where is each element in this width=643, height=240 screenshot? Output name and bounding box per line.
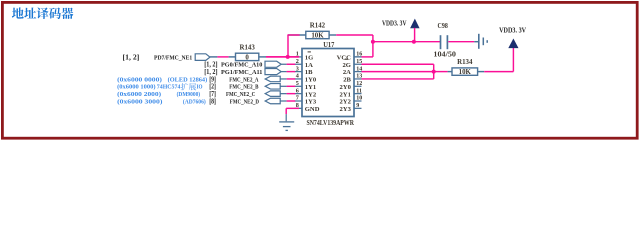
wire R143 to U17 pin 1 [266, 56, 299, 58]
port PG0/FMC_A10 [265, 61, 281, 67]
svg-text:VCC: VCC [337, 55, 352, 62]
wire R143 left stub [229, 56, 236, 58]
port FMC_NE2_D [265, 98, 280, 104]
svg-text:(AD7606): (AD7606) [183, 98, 206, 105]
wire FMC_NE2_C to U17 [280, 93, 286, 95]
wire R143 right stub [259, 56, 266, 58]
port FMC_NE2_A [265, 76, 280, 82]
svg-text:10K: 10K [459, 69, 472, 76]
wire GND pin 8 [286, 107, 299, 109]
svg-text:PD7/FMC_NE1: PD7/FMC_NE1 [154, 54, 192, 61]
svg-text:(0x6000 2000): (0x6000 2000) [117, 91, 161, 98]
svg-text:(OLED 12864): (OLED 12864) [168, 76, 208, 83]
svg-text:1G: 1G [305, 55, 313, 62]
power VDD3.3V (right) symbol [509, 39, 518, 48]
title 地址译码器 [12, 7, 74, 19]
svg-text:VDD3. 3V: VDD3. 3V [499, 27, 526, 35]
ground (right of C98) [478, 34, 480, 49]
wire R134 right stub [478, 71, 485, 73]
wire 2B pin 13 [362, 78, 434, 80]
svg-text:2B: 2B [343, 77, 351, 84]
junction 2G/2A/2B net [432, 70, 436, 74]
U17 right pin stubs [354, 57, 362, 108]
wire 2G pin 15 [362, 63, 434, 65]
capacitor C98 [440, 35, 442, 49]
svg-text:1Y3: 1Y3 [305, 99, 317, 106]
IC U17 SN74LV139APWR body [302, 49, 354, 117]
wire to R134 [434, 71, 448, 73]
wire PG1/FMC_A11 to U17 [281, 71, 286, 73]
resistor R134 [452, 59, 478, 76]
svg-text:1Y1: 1Y1 [305, 84, 316, 91]
svg-text:[1, 2]: [1, 2] [123, 53, 140, 61]
wire port to R143 [210, 56, 217, 58]
junction rail/VDD stem [412, 40, 416, 44]
svg-text:R134: R134 [457, 59, 473, 66]
wire R134 to VDD3.3V [484, 71, 513, 73]
wire FMC_NE2_D to U17 [280, 100, 286, 102]
svg-text:VDD3. 3V: VDD3. 3V [382, 20, 407, 27]
svg-text:74HC574: 74HC574 [157, 84, 181, 91]
svg-text:U17: U17 [323, 41, 335, 49]
wire FMC_NE2_A to U17 [280, 78, 286, 80]
wire pin1 stub [295, 56, 303, 58]
junction rail/R142 [371, 40, 375, 44]
wire R142 right stub [329, 34, 336, 36]
svg-text:[8]: [8] [209, 97, 216, 105]
wire VCC pin16 stub [354, 56, 362, 58]
resistor R142 [306, 23, 329, 40]
svg-text:R142: R142 [310, 23, 326, 30]
svg-text:PG1/FMC_A11: PG1/FMC_A11 [221, 69, 262, 76]
svg-text:1A: 1A [305, 62, 313, 69]
svg-text:0: 0 [245, 54, 249, 61]
svg-text:GND: GND [305, 106, 320, 113]
port FMC_NE2_C [265, 91, 280, 97]
wire pin16 to rail [362, 56, 373, 58]
wire R142 left stub [288, 34, 306, 36]
wire PG0/FMC_A10 to U17 [281, 63, 286, 65]
svg-text:(0x6000 3000): (0x6000 3000) [117, 98, 162, 105]
schematic sheet border [2, 2, 637, 138]
svg-text:2Y3: 2Y3 [340, 106, 352, 113]
U17 right pin names (VCC,2G,2A,2B,2Y0-2Y3) with 2G overline [337, 55, 352, 113]
svg-text:FMC_NE2_B: FMC_NE2_B [229, 84, 259, 91]
port FMC_NE2_B [265, 84, 280, 90]
resistor R143 [236, 44, 259, 61]
svg-text:10K: 10K [311, 33, 324, 40]
wire 2A pin 14 [362, 71, 434, 73]
svg-text:1Y0: 1Y0 [305, 77, 317, 84]
U17 left pin stubs [295, 64, 303, 108]
svg-text:R143: R143 [239, 44, 255, 51]
power VDD3.3V (left) symbol [411, 19, 420, 28]
ground (below U17) [279, 121, 294, 123]
svg-text:1: 1 [296, 51, 299, 58]
svg-text:(0x6000 0000): (0x6000 0000) [117, 76, 162, 83]
wire tie 15-14-13 [433, 64, 435, 79]
wire C98 to ground [448, 41, 474, 43]
junction node FMC_NE1 [286, 55, 290, 59]
svg-text:2Y0: 2Y0 [340, 84, 352, 91]
svg-text:SN74LV139APWR: SN74LV139APWR [306, 119, 354, 127]
net FMC_NE2_B peripheral annotation 扩展 (CJK) [181, 83, 196, 90]
wire R142 to VDD rail [336, 34, 373, 36]
U17 left pin names (1G,1A,1B,1Y0-1Y3,GND) with 1G overline [305, 52, 320, 113]
svg-text:IO: IO [197, 84, 203, 91]
port PG1/FMC_A11 [265, 69, 281, 75]
svg-text:2Y1: 2Y1 [340, 91, 351, 98]
svg-text:1Y2: 1Y2 [305, 91, 317, 98]
wire VDD rail [373, 41, 440, 43]
wire FMC_NE1 up to R142 [287, 35, 289, 57]
svg-text:FMC_NE2_D: FMC_NE2_D [230, 98, 259, 105]
svg-text:2A: 2A [343, 69, 351, 76]
svg-text:C98: C98 [438, 23, 449, 30]
svg-text:(0x6000 1000): (0x6000 1000) [117, 84, 156, 91]
svg-text:2G: 2G [342, 62, 350, 69]
svg-text:PG0/FMC_A10: PG0/FMC_A10 [221, 62, 263, 69]
svg-text:1B: 1B [305, 69, 313, 76]
port PD7/FMC_NE1 [195, 54, 210, 61]
U17 right pin numbers 16-9 [356, 52, 362, 109]
svg-text:FMC_NE2_C: FMC_NE2_C [226, 91, 255, 98]
U17 left pin numbers 1-8 [296, 51, 299, 109]
svg-text:FMC_NE2_A: FMC_NE2_A [229, 76, 258, 83]
svg-text:104/50: 104/50 [433, 51, 456, 59]
wire FMC_NE2_B to U17 [280, 85, 286, 87]
svg-text:(DM9000): (DM9000) [177, 91, 201, 98]
svg-text:2Y2: 2Y2 [340, 99, 352, 106]
